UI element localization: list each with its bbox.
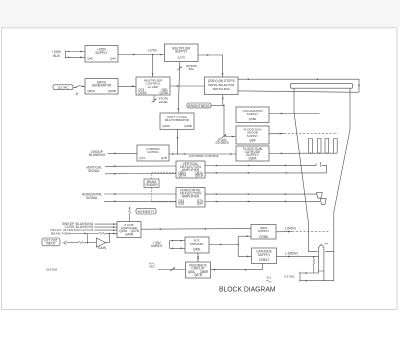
wire hv adjust to feedback	[158, 269, 186, 271]
wire vert amp upper output	[205, 164, 316, 166]
wire group blanking to gating	[108, 152, 137, 154]
CRT horizontal plate 2	[320, 198, 326, 204]
wire selector lower output to CRT faceplate	[238, 91, 350, 92]
pot level adjust R2	[153, 95, 155, 102]
svg-text:6.3 VAC: 6.3 VAC	[284, 275, 295, 279]
svg-text:BUS: BUS	[53, 54, 60, 58]
svg-text:Q7A: Q7A	[139, 156, 145, 160]
CRT storage mesh combs	[309, 139, 313, 154]
svg-text:SUPPLY: SUPPLY	[258, 253, 271, 257]
node 115VAC input	[53, 85, 73, 90]
wire selector bottom to flood gun line	[222, 95, 224, 106]
svg-text:CATHODE CONTROL: CATHODE CONTROL	[189, 154, 220, 158]
svg-text:UNREG: UNREG	[151, 244, 163, 248]
wire gun left lead	[318, 271, 320, 273]
svg-text:INPUT: INPUT	[46, 242, 56, 246]
node brightness control	[187, 103, 211, 108]
wire faceplate terminal stub	[350, 91, 360, 93]
wire flood gun cathode to comb bus	[269, 152, 302, 154]
wire multiplier control to selector	[170, 85, 205, 87]
wire beam finder dashed up	[151, 173, 153, 179]
wire hv primary to feedback link	[197, 253, 199, 262]
svg-text:Q84: Q84	[249, 138, 255, 142]
switch S1	[76, 85, 81, 87]
wire +225V supply output +170V	[118, 54, 165, 56]
svg-text:PRIMARY: PRIMARY	[190, 242, 204, 246]
node ext input	[42, 238, 60, 246]
wire collimation supply to CRT funnel	[269, 113, 294, 115]
svg-text:Q23A: Q23A	[138, 91, 147, 95]
svg-text:ADJ: ADJ	[149, 265, 155, 269]
pot intensity R4	[128, 214, 130, 222]
wire sweep blanking	[95, 223, 118, 225]
wire cathode supply output -1850V	[277, 255, 319, 257]
wire flood gun anode drop	[223, 105, 236, 136]
wire +300V to primary upper	[170, 240, 186, 242]
node intensity control	[136, 208, 156, 214]
svg-text:Q81B: Q81B	[195, 174, 203, 178]
wire +300V to primary lower	[170, 247, 186, 249]
CRT horizontal plate 1	[317, 193, 323, 199]
wire switch to drive generator	[81, 85, 85, 87]
CRT vertical plate 1	[315, 164, 317, 166]
wire horizontal signal lower	[104, 200, 176, 202]
svg-text:SUPPLY: SUPPLY	[258, 229, 270, 233]
wire cathode supply to feedback return	[211, 264, 263, 270]
svg-text:Q45: Q45	[87, 57, 93, 61]
svg-text:(-1850V): (-1850V)	[285, 251, 297, 255]
wire vertical signal upper	[105, 165, 176, 167]
wire comb bus	[302, 152, 337, 154]
block feedback circuit U18	[186, 262, 211, 278]
svg-text:GENERATOR: GENERATOR	[92, 84, 112, 88]
svg-text:MULTIVIBRATOR: MULTIVIBRATOR	[165, 118, 190, 122]
svg-text:115 VAC: 115 VAC	[57, 86, 68, 90]
svg-text:Q30A: Q30A	[248, 156, 257, 160]
block +225V supply U1	[85, 46, 118, 63]
block drive generator U2	[85, 79, 118, 95]
pot intensity balance R1	[177, 67, 182, 71]
svg-text:SUPPLY: SUPPLY	[247, 134, 259, 138]
block drive selector switching U5	[205, 77, 239, 95]
wire horizontal signal upper	[104, 193, 176, 195]
block z axis amplifier U14	[117, 222, 141, 238]
wire horiz amp lower output	[205, 200, 320, 202]
svg-text:(-540V): (-540V)	[285, 227, 296, 231]
svg-text:Q34: Q34	[197, 202, 203, 206]
svg-text:311: 311	[267, 275, 272, 279]
svg-text:LEVEL: LEVEL	[159, 100, 169, 104]
svg-text:INTENSITY: INTENSITY	[138, 210, 156, 214]
CRT vertical plate 2 squiggle	[320, 162, 321, 166]
wire 115VAC to switch	[73, 86, 76, 88]
wire heater top lead	[300, 272, 319, 274]
amplifier A1 triangle	[96, 238, 105, 247]
block cursor gating U10	[137, 145, 169, 161]
CRT faceplate	[291, 84, 353, 89]
wire flood gun anode to CRT screen	[269, 133, 284, 135]
wire bus to supply lower	[65, 56, 85, 58]
svg-text:SUPPLY: SUPPLY	[247, 112, 259, 116]
wire heater return bottom	[300, 251, 334, 280]
wire split to cathode supply	[238, 255, 251, 257]
svg-text:SIGNAL: SIGNAL	[86, 196, 98, 200]
pot hv adjust R5	[170, 268, 175, 272]
svg-text:Q18: Q18	[178, 202, 184, 206]
wire multiplier supply output to selector	[198, 55, 223, 77]
block duty cycle multivibrator U6	[160, 113, 194, 129]
svg-text:LF AMP: LF AMP	[148, 85, 159, 89]
wire heater resistor	[313, 257, 315, 260]
wire heater bracket	[299, 273, 301, 281]
svg-text:SUPPLY: SUPPLY	[95, 51, 108, 55]
block grid supply U16	[251, 225, 276, 240]
svg-text:BEAM FIND: BEAM FIND	[51, 231, 70, 235]
svg-text:Q45A: Q45A	[162, 124, 170, 128]
wire beam find	[69, 233, 100, 235]
wire duty cycle down to cathode control	[176, 129, 178, 154]
block multiplier supply U3	[165, 44, 199, 62]
wire cursor blanking	[95, 226, 118, 228]
wire drive generator to multiplier control	[118, 85, 136, 87]
svg-text:GAIN: GAIN	[125, 232, 134, 236]
svg-text:STORES: STORES	[215, 141, 229, 145]
svg-text:Q7B: Q7B	[161, 156, 167, 160]
wire vertical signal lower	[105, 173, 176, 175]
wire z axis output to grid supply	[141, 228, 251, 231]
wire dashed grid -540V line	[292, 231, 329, 233]
svg-text:SUPPLY: SUPPLY	[175, 50, 188, 54]
wire hv primary output split	[209, 244, 238, 246]
wire cathode control	[169, 153, 236, 155]
CRT funnel left edge	[294, 88, 318, 251]
svg-text:Q65A: Q65A	[87, 89, 96, 93]
svg-text:BLOCK DIAGRAM: BLOCK DIAGRAM	[219, 285, 276, 294]
wire brightness to flood gun anode	[211, 104, 224, 106]
svg-text:Q23B: Q23B	[159, 91, 167, 95]
wire collimation electrode inside funnel	[294, 113, 320, 115]
pot flood gun level R3	[222, 134, 227, 138]
svg-text:FINDER: FINDER	[145, 183, 158, 187]
wire selector upper output over CRT	[238, 79, 359, 92]
svg-text:GATING: GATING	[147, 150, 159, 154]
block flood gun cathode supply U9	[236, 146, 269, 161]
svg-text:CR84T: CR84T	[259, 258, 269, 262]
wire split to grid supply	[238, 235, 251, 237]
svg-text:Q87A: Q87A	[178, 174, 187, 178]
wire grid supply output -540V	[276, 231, 292, 233]
CRT electron gun	[319, 244, 324, 271]
wire bus to supply upper	[65, 51, 85, 53]
wire amplifier to z axis	[106, 234, 110, 243]
svg-text:Q87B: Q87B	[194, 273, 202, 277]
wire gun apex tick	[324, 242, 328, 245]
wire +170V branch down to multiplier control	[152, 55, 154, 78]
svg-text:Q45L: Q45L	[193, 247, 201, 251]
wire gun right lead down	[323, 271, 325, 281]
svg-text:+170V: +170V	[148, 49, 158, 53]
wire track intensification	[95, 229, 118, 231]
wire horiz amp upper output	[205, 193, 317, 195]
block multiplier control U4	[136, 77, 170, 95]
svg-text:BAL: BAL	[189, 67, 195, 71]
wire dashed collimation screen line	[284, 132, 338, 134]
svg-text:Q380: Q380	[249, 117, 257, 121]
wire beam find to ext amplifier junction	[87, 234, 89, 243]
svg-text:Q375: Q375	[178, 56, 186, 60]
block flood gun anode supply U8	[236, 126, 269, 144]
svg-text:Q45B: Q45B	[184, 124, 192, 128]
svg-text:BRIGHTNESS: BRIGHTNESS	[188, 104, 210, 108]
svg-text:GAIN: GAIN	[98, 246, 107, 250]
svg-text:SIGNAL: SIGNAL	[88, 169, 100, 173]
svg-text:014-018: 014-018	[46, 268, 57, 272]
wire multiplier supply bottom to duty cycle	[178, 62, 180, 113]
wire +300V bracket	[169, 241, 171, 249]
svg-text:Q44: Q44	[110, 57, 116, 61]
block horizontal deflection amplifier U13	[176, 188, 205, 208]
block beam finder U12	[144, 179, 159, 188]
block cathode supply U17	[252, 248, 277, 264]
CRT funnel right edge	[325, 88, 350, 251]
scan margin above page edge	[0, 0, 400, 28]
wire ext input connector	[64, 241, 67, 245]
svg-text:CR8B: CR8B	[259, 235, 268, 239]
wire vert amp lower output wrap	[205, 165, 327, 173]
wire +225V bus bracket	[64, 51, 66, 59]
block collimation supply U7	[236, 107, 269, 123]
svg-text:SWITCHING: SWITCHING	[213, 87, 231, 91]
wire beam finder dashed down	[151, 188, 153, 202]
svg-text:Q65B: Q65B	[108, 89, 116, 93]
svg-text:BLANKING: BLANKING	[89, 153, 106, 157]
block hv primary U15	[185, 237, 209, 253]
block vertical deflection amplifier U11	[176, 161, 205, 178]
